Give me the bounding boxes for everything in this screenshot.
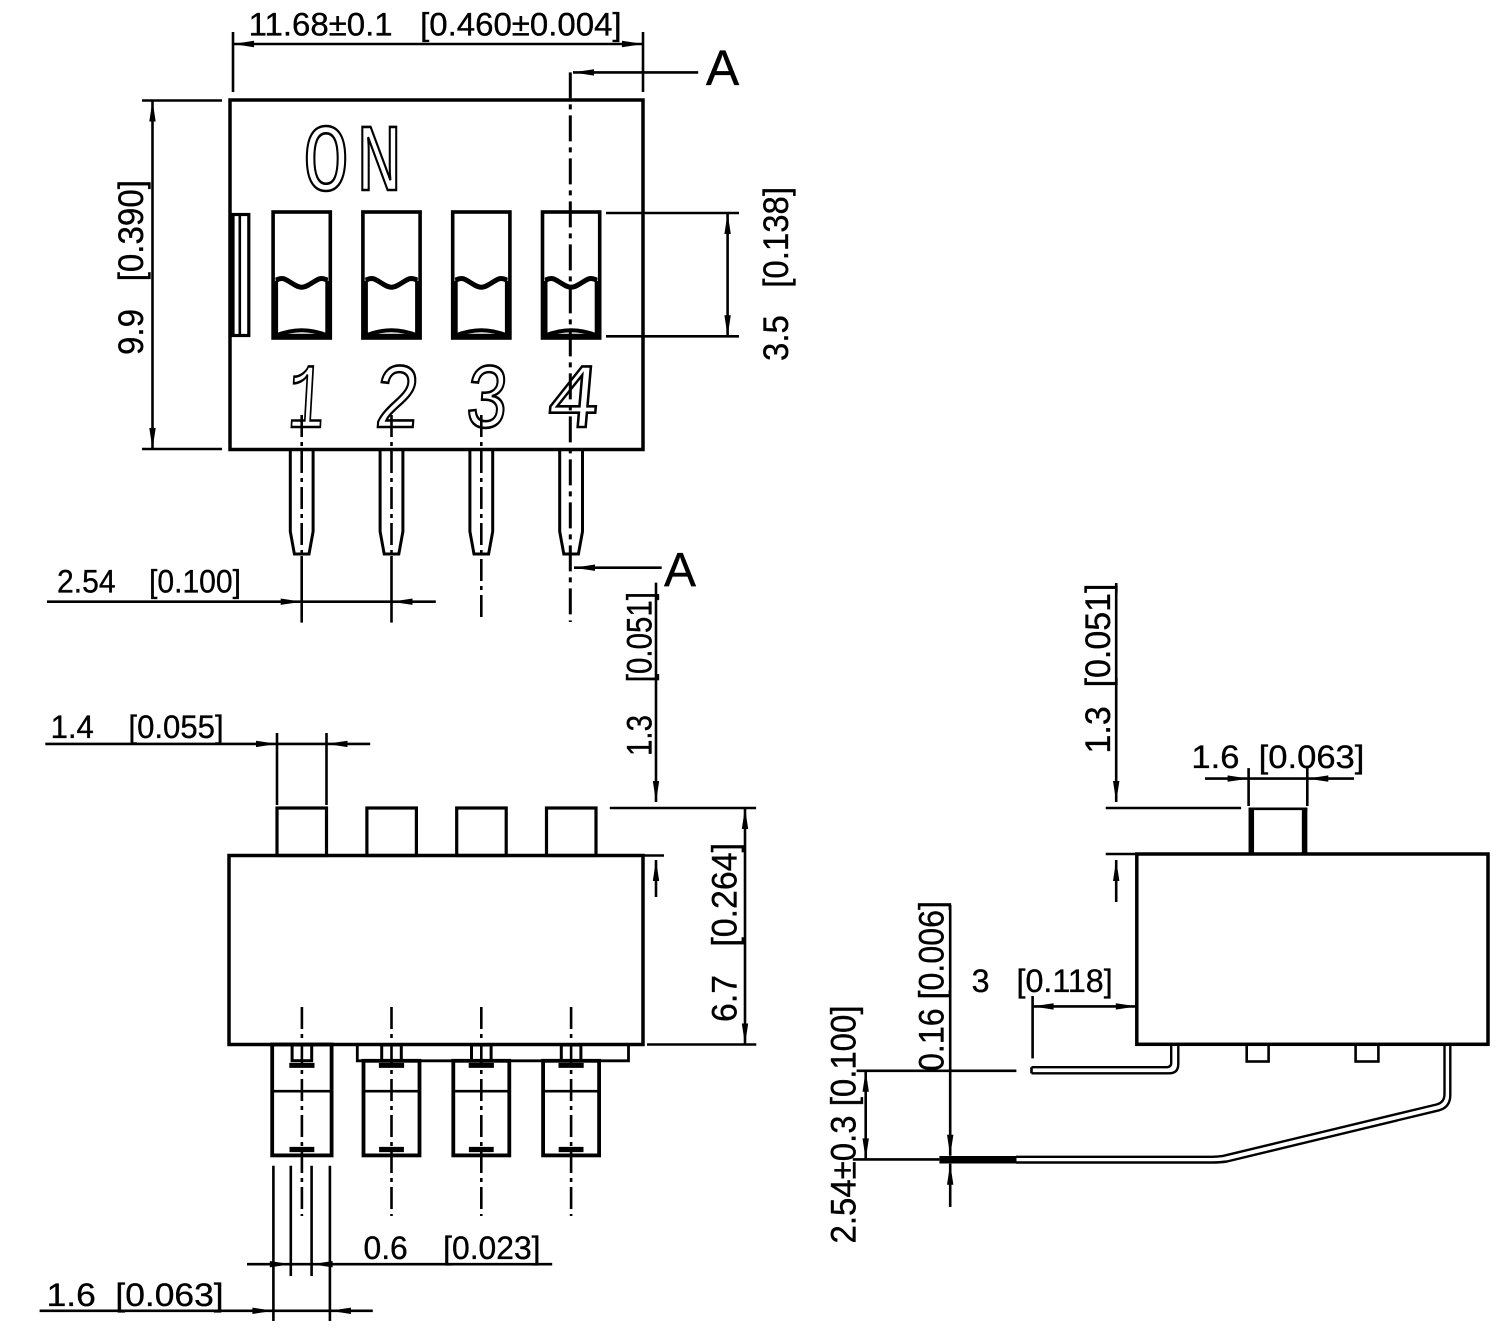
switch slot 4 — [543, 212, 600, 338]
svg-text:3.5 [0.138]: 3.5 [0.138] — [757, 187, 796, 361]
svg-text:9.9 [0.390]: 9.9 [0.390] — [112, 180, 151, 355]
svg-text:6.7 [0.264]: 6.7 [0.264] — [706, 843, 745, 1022]
svg-text:3: 3 — [461, 351, 512, 455]
dim 1.3 (side) — [1115, 583, 1118, 802]
svg-text:1.4 [0.055]: 1.4 [0.055] — [51, 709, 224, 745]
svg-text:1.3 [0.051]: 1.3 [0.051] — [621, 592, 660, 756]
pin centerlines front view — [300, 415, 303, 556]
svg-text:ON: ON — [303, 112, 410, 220]
bottom view pin 1 box — [272, 1045, 331, 1156]
bottom view: 4 top tabs — [277, 808, 327, 856]
dim 2.54 pitch — [47, 600, 436, 603]
dim 1.6 (bottom view) — [40, 1310, 373, 1313]
pin 1 front view — [290, 450, 313, 555]
pin 3 front view — [470, 450, 493, 555]
bottom view: body — [229, 856, 643, 1045]
position numbers 1-4 — [285, 352, 327, 456]
svg-text:1.6 [0.063]: 1.6 [0.063] — [47, 1277, 224, 1313]
svg-text:1.3 [0.051]: 1.3 [0.051] — [1079, 584, 1118, 754]
dim 1.4 — [276, 733, 279, 805]
actuator 1 (thick) — [276, 278, 328, 287]
actuator 2 (thick) — [365, 278, 417, 287]
svg-text:A: A — [664, 544, 696, 597]
actuator 4 (thick) — [545, 278, 597, 287]
bottom view: step recess — [357, 1045, 628, 1061]
dim 0.16 — [949, 905, 952, 1156]
svg-text:0.16 [0.006]: 0.16 [0.006] — [913, 901, 952, 1071]
svg-text:1.6 [0.063]: 1.6 [0.063] — [1191, 739, 1364, 775]
front view: switch body outline — [230, 100, 643, 450]
ON marking — [303, 112, 410, 220]
ext lines below pin1 — [272, 1166, 275, 1321]
pin 4 front view — [560, 450, 583, 555]
svg-text:1: 1 — [285, 352, 327, 456]
dim 6.7 — [647, 1043, 756, 1046]
actuator 3 (thick) — [455, 278, 507, 287]
side view: front bent pin — [1032, 1044, 1179, 1073]
svg-text:2: 2 — [370, 352, 423, 455]
dim 1.3 (bottom view) — [655, 583, 658, 802]
svg-text:0.6 [0.023]: 0.6 [0.023] — [364, 1230, 541, 1266]
bottom view pin 4 box — [543, 1061, 599, 1156]
section arrow A bottom — [574, 566, 662, 569]
section line A-A — [569, 72, 572, 622]
dim 0.6 — [247, 1263, 552, 1266]
svg-text:A: A — [706, 40, 740, 96]
dim 2.54 offset — [857, 1070, 1017, 1073]
side view: actuator tab — [1249, 807, 1308, 810]
switch slot 2 — [363, 212, 420, 338]
svg-text:11.68±0.1 [0.460±0.004]: 11.68±0.1 [0.460±0.004] — [249, 7, 622, 43]
svg-text:3 [0.118]: 3 [0.118] — [972, 963, 1113, 999]
bottom view pin 3 box — [453, 1061, 509, 1156]
dim 11.68 overall width — [232, 32, 235, 92]
side view: feet — [1247, 1044, 1269, 1061]
front view: left polarity notch — [233, 215, 249, 336]
switch slot 1 — [273, 212, 330, 338]
rear pin tip (thick) — [939, 1156, 1016, 1164]
section arrow A top — [573, 71, 698, 74]
bottom view pin centerlines — [301, 1007, 304, 1216]
bottom view pin 2 box — [364, 1061, 420, 1156]
switch slot 3 — [453, 212, 510, 338]
pin 2 front view — [380, 450, 403, 555]
svg-text:2.54 [0.100]: 2.54 [0.100] — [57, 564, 241, 600]
dim 3.5 actuator — [606, 212, 739, 215]
dim 9.9 height — [142, 99, 222, 102]
svg-text:2.54±0.3 [0.100]: 2.54±0.3 [0.100] — [825, 1006, 864, 1244]
dim 3 (side) — [1031, 996, 1034, 1058]
dim 1.6 (side) — [1247, 768, 1250, 806]
svg-text:4: 4 — [542, 351, 606, 455]
side view: body — [1137, 854, 1488, 1044]
side view: rear bent pin — [1016, 1044, 1450, 1162]
